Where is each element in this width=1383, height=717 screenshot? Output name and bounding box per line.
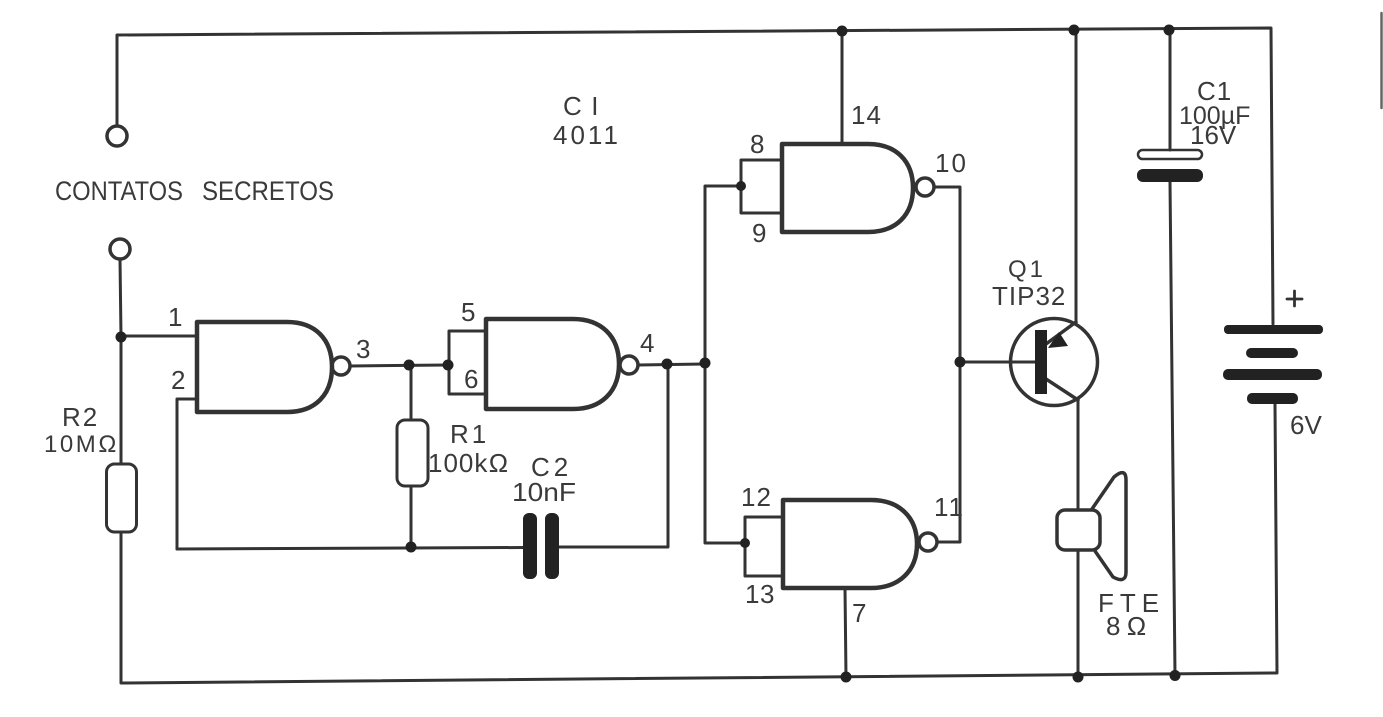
svg-text:8Ω: 8Ω — [1106, 611, 1152, 641]
svg-text:14: 14 — [851, 100, 882, 130]
svg-text:Q1: Q1 — [1008, 256, 1046, 283]
svg-text:5: 5 — [461, 297, 475, 327]
svg-text:CONTATOS: CONTATOS — [55, 176, 183, 206]
svg-text:R2: R2 — [62, 402, 99, 432]
svg-text:12: 12 — [741, 482, 772, 512]
svg-text:SECRETOS: SECRETOS — [202, 176, 334, 206]
svg-text:4011: 4011 — [553, 120, 621, 150]
svg-text:10: 10 — [935, 148, 968, 178]
svg-text:2: 2 — [171, 365, 185, 395]
svg-text:1: 1 — [168, 302, 182, 332]
svg-text:TIP32: TIP32 — [992, 281, 1066, 311]
svg-text:10MΩ: 10MΩ — [44, 431, 119, 458]
svg-text:6V: 6V — [1290, 410, 1322, 440]
svg-text:16V: 16V — [1190, 120, 1237, 150]
svg-text:9: 9 — [752, 218, 766, 248]
svg-text:4: 4 — [640, 328, 654, 358]
svg-text:100kΩ: 100kΩ — [428, 448, 509, 478]
svg-text:CI: CI — [563, 91, 608, 121]
svg-text:8: 8 — [750, 129, 764, 159]
svg-text:6: 6 — [464, 364, 478, 394]
svg-text:10nF: 10nF — [512, 477, 576, 507]
svg-text:R1: R1 — [450, 419, 489, 449]
svg-text:11: 11 — [934, 492, 965, 522]
svg-text:7: 7 — [852, 598, 866, 628]
svg-text:3: 3 — [356, 334, 370, 364]
svg-text:13: 13 — [745, 579, 775, 609]
